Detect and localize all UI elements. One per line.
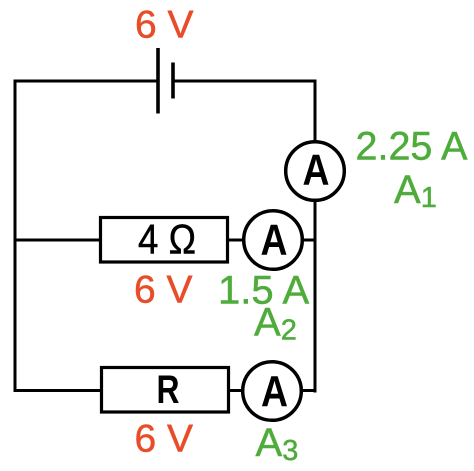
wire: top-right horizontal from battery to right corner — [173, 80, 317, 83]
battery B1 long plate — [156, 48, 160, 114]
svg-text:6 V: 6 V — [135, 418, 194, 461]
svg-text:A: A — [303, 146, 330, 195]
svg-text:2.25 A: 2.25 A — [356, 125, 469, 169]
wire: bottom stub ammeter A3 to right wire — [300, 389, 317, 392]
svg-text:A3: A3 — [256, 421, 299, 467]
ammeter A1 circle — [286, 142, 345, 201]
wire: left vertical — [14, 80, 17, 392]
wire: middle stub ammeter A2 to right wire — [301, 239, 315, 242]
svg-text:6 V: 6 V — [134, 269, 193, 312]
battery B1 short plate — [171, 63, 175, 99]
svg-text:A1: A1 — [394, 168, 437, 214]
wire: bottom stub resistor to ammeter A3 — [229, 389, 244, 392]
ammeter A3 circle — [243, 362, 302, 421]
resistor R box — [102, 368, 229, 413]
resistor 4 ohm box — [101, 218, 228, 263]
wire: bottom branch left horizontal — [14, 389, 101, 392]
svg-text:4 Ω: 4 Ω — [138, 216, 196, 263]
wire: middle stub resistor to ammeter A2 — [228, 239, 245, 242]
ammeter A2 circle — [244, 211, 303, 270]
svg-text:6 V: 6 V — [135, 4, 194, 47]
wire: middle branch left horizontal — [14, 239, 100, 242]
wire: top-left horizontal from left corner to battery — [14, 80, 159, 83]
wire: right vertical lower (ammeter A1 to bottom-right corner) — [314, 201, 317, 393]
svg-text:A: A — [261, 367, 288, 416]
svg-text:A: A — [261, 215, 288, 264]
wire: right vertical upper (top corner to ammeter A1) — [314, 80, 317, 142]
svg-text:R: R — [157, 368, 180, 412]
